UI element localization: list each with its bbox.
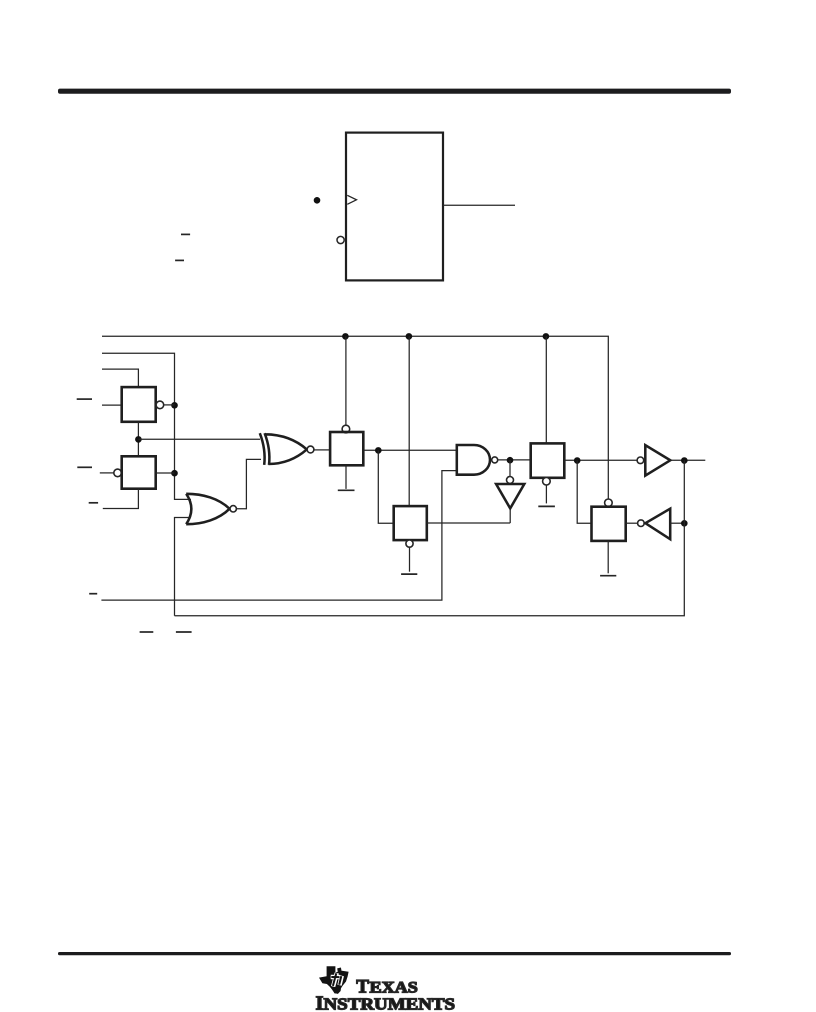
wire box3 top riser to rail [345,336,347,425]
box3 termination stub [345,465,347,489]
junction dot box5 output [574,457,581,464]
overbar dash box1 input [77,398,92,400]
box2 (G2) [122,456,156,488]
bubble box6 top [605,499,613,507]
bubble box3 top [342,425,350,433]
wire drop to box6 left input [577,460,591,523]
feedback wire 2 [175,460,685,616]
bubble down-inverter input [507,477,514,484]
box5 termination bar [538,505,555,507]
Texas Instruments logo map glyph [319,966,349,994]
bubble box1 output [156,401,164,409]
svg-text:NSTRUMENTS: NSTRUMENTS [324,994,456,1012]
junction dot box1 output [171,402,178,409]
left inverter G12 [645,509,670,540]
junction dot output [681,457,688,464]
rail junction dot A [342,333,349,340]
wire NAND output to box5 [498,459,531,461]
input wire into box1 left [102,404,122,406]
junction dot NAND output [507,457,514,464]
overbar dash bottom 1 [140,631,154,633]
output wire Y [670,459,705,461]
wire connector to XNOR upper input [138,438,260,440]
junction dot right vertical [681,520,688,527]
wire box5 output to buffer bubble [564,459,637,461]
wire box3 output to NAND input [363,449,457,451]
box6 (G10) [592,507,626,541]
footer rule [58,952,731,955]
overbar label dash 2 [175,259,184,261]
top supply rail wire [102,336,608,499]
bubble NOR output [230,506,236,512]
output wire Q [443,204,515,206]
bubble box5 bottom [543,477,551,485]
connector wire box1 to box2 [137,422,139,457]
wire box4 top riser to rail [408,336,410,506]
input wire 2 with vertical bus to NOR top input [102,353,191,499]
top buffer G11 [645,445,670,476]
wire inverter input from right vertical [670,522,684,524]
wire drop to box4 left input [378,450,393,523]
wire NOR bottom input from feedback bus [175,518,192,616]
bubble on clear input [337,236,344,243]
XNOR gate G4 extra input arc [260,433,265,465]
junction dot box3 output [375,447,382,454]
overbar dash feedback 1 [89,593,97,595]
overbar dash bottom 2 [176,631,192,633]
wire NOR output up to XNOR lower input [236,459,261,508]
bubble NAND output [492,457,498,463]
wire box2 output to bus [156,472,175,474]
bubble left inverter output [638,520,645,527]
wire box4 output to inverter apex line [427,522,510,524]
feedback wire 1 to NAND lower input [101,471,456,600]
box5 (G9) [531,443,565,477]
svg-text:I: I [316,992,324,1012]
wire inverter apex down to box4 wire [509,508,511,523]
wire XNOR output to box3 [314,449,330,451]
box4 (G6) [394,506,427,540]
bubble XNOR output [307,446,314,453]
down inverter G8 [496,484,524,508]
header rule [58,89,731,94]
wire box5 top riser to rail [545,336,547,443]
box3 (G5) [330,432,363,465]
clock wedge [347,195,356,204]
box6 termination bar [600,575,616,577]
bubble box4 bottom [406,540,413,547]
rail junction dot B [406,333,413,340]
wire box6 output to left inverter bubble [626,522,638,524]
bubble top buffer input [637,457,644,464]
flip-flop package symbol U1 [346,133,443,281]
wire dot down to inverter bubble [509,460,511,476]
box6 termination stub [607,541,609,573]
input wire 3 into box1 top [102,369,138,387]
bubble box2 input [114,469,122,477]
wire into box2 bottom [103,489,139,509]
node dot left of clock [314,197,321,204]
box4 termination bar [401,573,417,575]
junction dot connector [135,436,142,443]
box5 termination stub [545,485,547,503]
NOR gate G3 [186,494,229,524]
box3 termination bar [338,489,355,491]
NAND gate G7 [457,445,490,475]
overbar label dash 1 [181,233,190,235]
input wire into box2 bubble [100,472,114,474]
box1 (G1) [122,387,156,422]
rail junction dot C [543,333,550,340]
overbar dash box2 bottom input [89,502,98,504]
wire box1 bubble to bus [164,404,175,406]
overbar dash box2 input [77,466,92,468]
XNOR gate G4 body [265,433,307,465]
junction dot box2 output [171,470,178,477]
box4 termination stub [409,547,411,572]
